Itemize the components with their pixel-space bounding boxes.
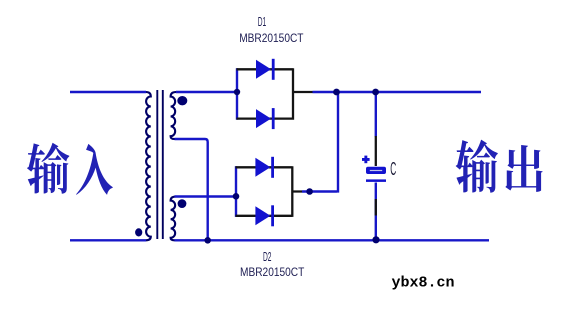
svg-text:MBR20150CT: MBR20150CT [240,265,304,279]
svg-text:C: C [390,159,396,179]
svg-text:ybx8.cn: ybx8.cn [392,275,455,292]
svg-text:D2: D2 [263,250,272,264]
svg-text:MBR20150CT: MBR20150CT [239,31,303,45]
svg-text:D1: D1 [258,15,267,29]
